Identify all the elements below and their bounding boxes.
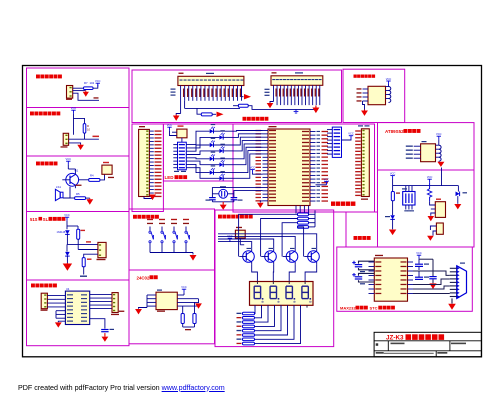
label 单片机系统 (331, 202, 335, 206)
power arrow C10 (104, 333, 106, 337)
wire J1 to R1 (73, 87, 84, 89)
power arrow L2 (80, 143, 82, 146)
wire R10 to D11 (392, 201, 394, 216)
wire C7 to ground (432, 279, 434, 283)
power VCC U3 (386, 81, 390, 84)
pins U6 right (177, 294, 184, 296)
wires J8 pins (273, 85, 275, 101)
wires emitters to display (252, 264, 258, 281)
wires crystal to U1 (212, 188, 262, 198)
title block frame (374, 332, 481, 357)
block 数码管显示电路 outline (215, 210, 334, 347)
capacitor C7 (429, 276, 436, 278)
resistors RS1-RS8 (243, 312, 255, 315)
power VCC PWR2 (427, 179, 431, 182)
crystal Y1 (219, 189, 228, 198)
power arrow L1 (85, 91, 87, 92)
power arrow U5 (440, 161, 442, 163)
wire VCC to R2 and J2 (74, 114, 85, 124)
pins U6 left (147, 294, 156, 296)
keys S1-S4 (147, 223, 153, 224)
power VCC MCU right (349, 136, 353, 139)
power arrow U1 gnd (260, 201, 262, 203)
capacitor C2 (231, 197, 238, 199)
power marks J8 (265, 89, 270, 90)
diode D9 1N4148 (65, 230, 70, 234)
svg-text:VCC: VCC (386, 77, 392, 81)
svg-text:JZ-K3: JZ-K3 (386, 335, 404, 342)
power VCC L4 (65, 217, 69, 220)
label 电源扩展接口 (354, 75, 357, 78)
wires D12 (457, 186, 459, 192)
resistor R9 backlight (238, 104, 248, 107)
block 液晶模块接口 outline (132, 70, 342, 123)
svg-text:VCC: VCC (64, 213, 70, 217)
svg-text:VCC: VCC (167, 123, 173, 127)
power marks J7 (171, 89, 176, 90)
resistor R11 (181, 314, 184, 324)
block 温度传感器电路 outline (27, 108, 130, 157)
wire group left pins (56, 310, 65, 312)
wire J4 to R6 to P net (84, 254, 98, 257)
power arrow DB9 (451, 303, 453, 305)
wires display bottom to resistors (254, 305, 257, 313)
wires P8 (430, 201, 436, 205)
wire bus J8 (262, 108, 316, 110)
svg-text:MAX232: MAX232 (340, 305, 356, 310)
coil pins U3 right (389, 87, 391, 91)
wire U5 to arrow (438, 160, 440, 162)
capacitor C1 (209, 197, 216, 199)
svg-text:VCC: VCC (71, 106, 77, 110)
LEDs D1-D8 with wires (186, 131, 209, 144)
power arrow P8 (430, 215, 432, 217)
diode D11 (390, 215, 395, 219)
arrow right R9 (242, 96, 244, 98)
svg-text:VCC: VCC (250, 165, 256, 169)
power VCC U5 (437, 136, 441, 139)
power VCC L3 (66, 161, 70, 164)
wires U1 bottom to display (295, 206, 297, 214)
svg-text:1N4148: 1N4148 (57, 231, 66, 234)
resistor R10 (391, 192, 394, 201)
block AT89S52下载电路 outline (378, 123, 475, 170)
block 独立按键电路 outline (129, 209, 215, 270)
power arrow L5 (58, 321, 65, 322)
label 独立按键电路 (133, 215, 137, 219)
ground symbol J8 (294, 109, 299, 113)
power arrow J8 left (270, 102, 274, 103)
svg-text:VCC: VCC (416, 251, 422, 255)
svg-text:STC: STC (370, 305, 378, 310)
IC U1 AT89S52 (268, 129, 310, 206)
label 蜂鸣器电路 (36, 162, 40, 166)
wire D11 down (392, 219, 394, 229)
pins U7 left (369, 261, 375, 263)
block 电源扩展接口 outline (343, 69, 405, 122)
wire RP2 to VCC (342, 139, 352, 140)
capacitor C9 (77, 229, 80, 239)
svg-text:VCC: VCC (324, 177, 330, 181)
label 温度传感器电路 (30, 112, 34, 116)
speaker LS1 (60, 192, 63, 198)
power arrow J7 gnd (176, 114, 180, 115)
svg-text:51S: 51S (30, 217, 38, 222)
wire R1 to VCC (93, 85, 98, 89)
svg-text:LS1: LS1 (56, 185, 61, 189)
pins U7 right (408, 261, 414, 263)
pins U1 left (263, 130, 269, 132)
title small texts (376, 343, 379, 346)
wire VCC to U5 (438, 140, 440, 146)
block P0接口 outline (132, 124, 163, 212)
label 4位数码管显示电路 (218, 215, 222, 219)
capacitor C5 (418, 259, 420, 264)
pins U5 left (414, 145, 421, 147)
wire U6 left common (146, 295, 148, 308)
resistor R3 base (89, 179, 100, 182)
header P power select (177, 129, 187, 138)
diode D10 (65, 252, 70, 256)
svg-text:VCC: VCC (390, 171, 396, 175)
resistor R6 (82, 258, 85, 267)
capacitor C10 (101, 329, 108, 331)
power VCC LED (167, 127, 171, 130)
pins U1 right (310, 131, 316, 133)
connector J4 select (98, 242, 106, 257)
IC U5 download header (421, 144, 436, 162)
wire A52 to power bus (441, 168, 443, 186)
power VCC seg (228, 238, 232, 241)
wires LED bus staircase to U1 (233, 130, 263, 133)
power arrow P9 (429, 235, 431, 237)
wire bus J7 (184, 101, 186, 109)
wire header to RP1 (181, 138, 183, 142)
connector J10 MCU right (361, 129, 369, 197)
wire U2 pin9 (90, 319, 105, 329)
IC U7 MAX232 (374, 258, 407, 301)
svg-text:R5: R5 (76, 192, 80, 196)
block 24C02电路 outline (129, 270, 215, 344)
power arrow U6 right (198, 302, 200, 304)
connector J5 stepper in (41, 293, 47, 309)
wire VCC to R10 (392, 179, 394, 192)
power arrow JP0 (144, 197, 153, 199)
power VCC L1 (96, 83, 100, 86)
svg-text:10: 10 (87, 127, 91, 131)
switch S5 dip (403, 192, 415, 206)
svg-text:VCC: VCC (181, 285, 187, 289)
label 红外接收电路 (36, 75, 40, 79)
wire R6 down (83, 267, 85, 275)
svg-text:R7: R7 (84, 81, 88, 85)
block 选择电路 outline (27, 212, 130, 281)
capacitor C6 (415, 276, 423, 278)
power arrow C7 (432, 282, 434, 284)
wires VCC to header (170, 131, 177, 136)
wires collectors staircase (218, 242, 252, 249)
svg-text:R4: R4 (90, 174, 94, 178)
resistor R8 contrast (201, 113, 212, 116)
resistor R1 (84, 87, 94, 90)
svg-text:102: 102 (90, 81, 95, 85)
connector J11 DB9 (457, 266, 467, 299)
block 电源电路 outline (378, 170, 475, 247)
IC U2 ULN2003 (65, 291, 89, 324)
wire to R8 (197, 108, 201, 114)
wires base resistors to transistors (298, 226, 304, 228)
footer pdfFactory note (18, 384, 225, 392)
wire base to R3 (79, 179, 89, 181)
block 蜂鸣器电路 outline (27, 156, 130, 212)
transistor Q1 9012 (66, 173, 79, 186)
header J8 LCD12864 (271, 76, 323, 86)
connector J6 motor (112, 293, 118, 313)
thermistor squiggle (427, 183, 431, 202)
power arrow L4 big (66, 262, 68, 265)
display DS1 4digit (250, 282, 314, 306)
wire VCC junction (66, 221, 68, 230)
wire resistor bus vertical (314, 211, 316, 227)
power arrow crystal (222, 202, 224, 205)
wires J7 pins (180, 86, 182, 114)
label 步进电机电路 (31, 284, 35, 288)
pin labels J10 (355, 130, 361, 131)
connector J2 sensor (63, 133, 68, 145)
power arrow keys (192, 253, 194, 255)
connector JP0 20pin (139, 129, 150, 196)
power VCC U1 RST (250, 170, 254, 173)
wire emitter to speaker and R5 (63, 187, 70, 198)
wire common keys (150, 252, 193, 254)
svg-text:VCC: VCC (436, 132, 442, 136)
wire VCC to Q1 collector (67, 165, 69, 169)
wires J5 to U2 (47, 295, 65, 297)
resistor pack RP2 (332, 127, 341, 157)
capacitor C4 loop (359, 273, 375, 275)
svg-text:AT89S52: AT89S52 (385, 129, 404, 134)
block MAX232通信电路 outline (337, 247, 473, 311)
wire R3 to P header (100, 174, 105, 180)
coil pins U5 right (439, 145, 441, 149)
power VCC PWR1 (390, 176, 394, 179)
resistor pack RP1 (178, 142, 187, 170)
power arrow J8 right (315, 106, 317, 108)
block 单片机系统 outline (233, 124, 375, 212)
power arrow L3 (89, 198, 91, 199)
wires U2 to J6 (90, 294, 112, 296)
display bottom stubs (254, 305, 256, 307)
IC U6 24C02 (156, 292, 177, 309)
svg-text:SL: SL (43, 217, 49, 222)
base resistors RB1-RB4 (298, 213, 309, 216)
power VCC U7 (417, 255, 421, 258)
header P9 power2 (436, 223, 443, 234)
svg-text:U4: U4 (66, 287, 70, 291)
power VCC L2 (71, 110, 75, 113)
header P7 buzzer drive (102, 165, 112, 174)
wire J1 pin3 net P3.2 (73, 93, 99, 100)
header P8 power (435, 202, 445, 218)
wire junction to J4 (67, 243, 98, 245)
label 电源电路 (354, 236, 358, 240)
IC U3 expansion (368, 86, 386, 104)
wire R5 to ground (86, 197, 90, 199)
svg-text:VCC: VCC (348, 132, 354, 136)
wire VCC branch to C7 (419, 258, 433, 260)
wires P9 (430, 226, 436, 230)
header P10 seg (235, 230, 245, 238)
header J7 LCD1602 (178, 76, 244, 85)
resistor R2 (83, 124, 86, 134)
resistor R5 (75, 197, 86, 200)
svg-text:24C02: 24C02 (137, 275, 150, 280)
wires R11 R12 bottom (182, 324, 184, 328)
block 红外接收电路 outline (27, 68, 130, 108)
arrow right R8 (212, 113, 216, 115)
label 液晶模块接口 (243, 117, 247, 121)
svg-text:VCC: VCC (427, 175, 433, 179)
svg-text:VCC: VCC (95, 79, 101, 83)
svg-text:LED: LED (165, 175, 175, 180)
wire bus PWR (393, 185, 459, 187)
wires JP0 pins (149, 130, 153, 132)
power VCC U6 (182, 289, 186, 292)
block LED流水灯 outline (163, 124, 233, 181)
block 步进电机电路 outline (27, 280, 130, 346)
svg-text:Q1: Q1 (75, 169, 79, 173)
wire DB9 ground (451, 298, 453, 303)
power arrow U3 (364, 110, 366, 111)
wire U3 ground (363, 101, 365, 110)
wire J1 pin2 (73, 90, 86, 92)
wire sensor output AD0 (84, 133, 86, 139)
diode D12 (456, 192, 460, 197)
wire U6 right to arrow (198, 299, 200, 303)
power VCC P3 row (316, 184, 327, 186)
capacitor C3 loop (359, 261, 375, 263)
wire P10 down (239, 238, 241, 245)
power arrow U6 left (138, 308, 140, 310)
power arrow D12 (457, 203, 459, 205)
wires U7 to DB9 (413, 279, 450, 285)
connector J1 infrared (67, 86, 73, 99)
svg-text:VCC: VCC (66, 157, 72, 161)
pins U3 left (363, 88, 369, 90)
resistor R12 (193, 314, 196, 324)
wire J2 pin3 to ground (69, 143, 81, 145)
power arrow PWR1 (392, 229, 394, 231)
transistors Q2-Q5 (243, 251, 255, 263)
